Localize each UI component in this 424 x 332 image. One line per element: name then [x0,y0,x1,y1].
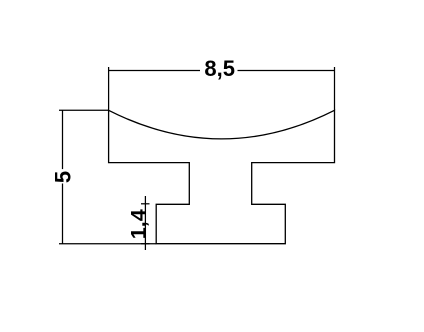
svg-text:1,4: 1,4 [127,209,151,239]
svg-text:8,5: 8,5 [204,56,235,81]
svg-text:5: 5 [51,171,76,183]
